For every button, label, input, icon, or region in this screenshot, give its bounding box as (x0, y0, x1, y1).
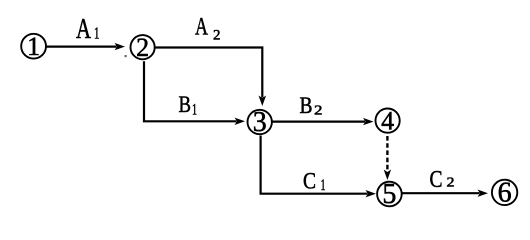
svg-text:4: 4 (381, 106, 394, 135)
svg-text:2: 2 (213, 28, 221, 44)
label B2 (300, 93, 323, 119)
node 4 (376, 106, 400, 135)
dashed wire arrow from node4 down into node5 (384, 136, 391, 180)
svg-text:6: 6 (498, 177, 512, 208)
label B1 (179, 92, 198, 119)
node 2 (131, 33, 155, 62)
svg-text:C: C (303, 169, 316, 194)
node 6 (492, 177, 517, 208)
svg-text:5: 5 (382, 179, 396, 210)
svg-text:B: B (300, 93, 313, 118)
wire arrow A1 from node1 to node2 (46, 43, 125, 50)
node 3 (248, 107, 272, 138)
svg-text:1: 1 (27, 32, 40, 61)
node 5 (377, 179, 402, 210)
svg-text:1: 1 (94, 24, 100, 43)
label A2 (195, 14, 221, 44)
svg-text:1: 1 (321, 177, 326, 194)
wire arrow B1 from node2 down, corner right into node3 (144, 61, 245, 125)
label C2 (430, 167, 455, 193)
svg-text:A: A (76, 13, 91, 45)
wire arrow A2 from node2 right, corner down into node3 (155, 48, 266, 107)
svg-text:2: 2 (314, 104, 323, 119)
stray ink speck (125, 55, 127, 57)
label C1 (303, 169, 326, 195)
label A1 (76, 13, 100, 45)
wire arrow C1 from node3 down, corner right into node5 (261, 136, 376, 198)
svg-text:3: 3 (253, 107, 267, 138)
svg-text:2: 2 (136, 33, 149, 62)
svg-text:2: 2 (447, 176, 455, 191)
svg-text:A: A (195, 14, 208, 41)
node 1 (21, 32, 46, 61)
svg-text:C: C (430, 167, 443, 193)
svg-text:1: 1 (192, 102, 197, 119)
wire arrow C2 from node5 to node6 (402, 190, 488, 197)
svg-text:B: B (179, 92, 192, 117)
wire arrow B2 from node3 to node4 (272, 118, 374, 125)
